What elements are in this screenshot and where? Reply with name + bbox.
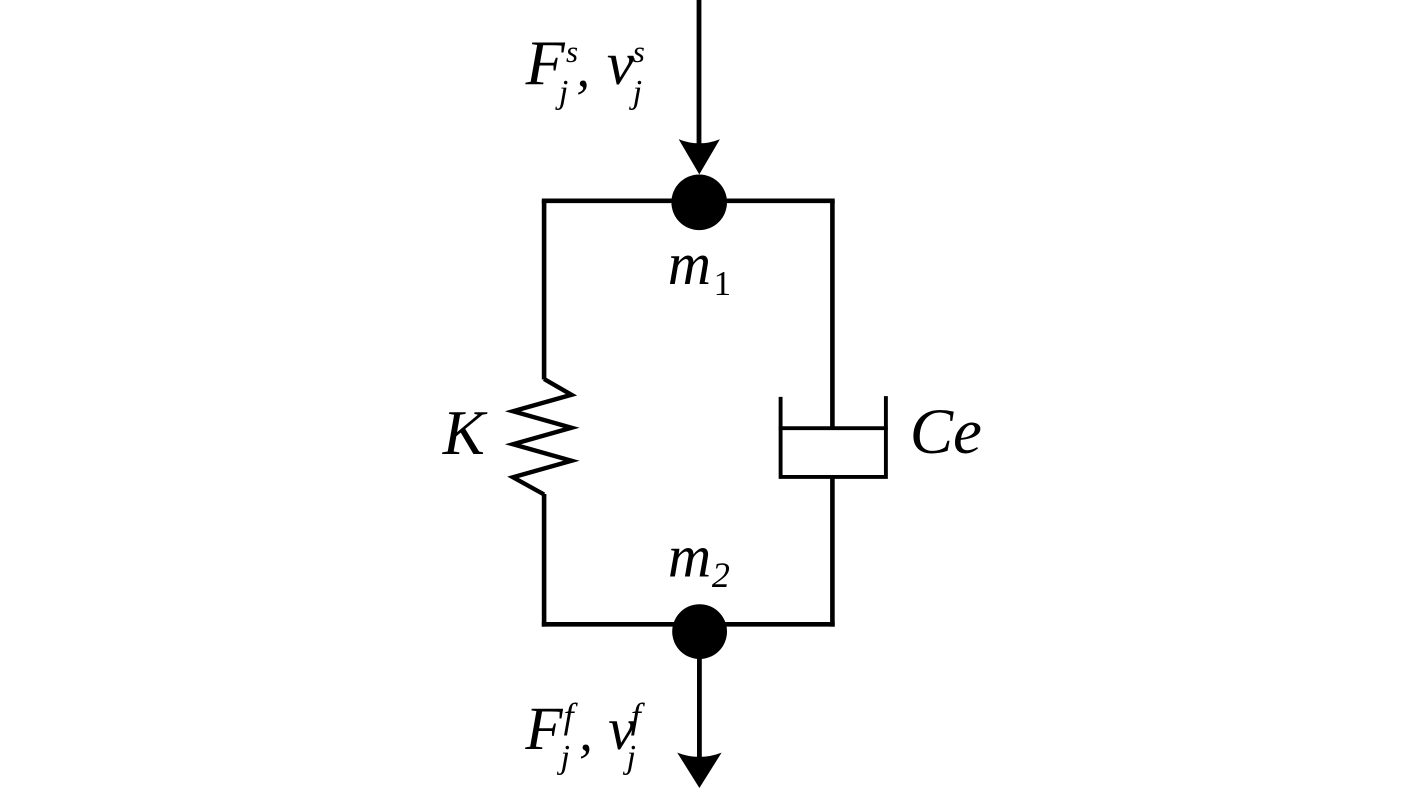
svg-text:F: F <box>524 696 563 763</box>
wire: bottom horizontal <box>542 622 835 627</box>
svg-text:s: s <box>633 34 645 69</box>
svg-text:2: 2 <box>712 555 730 595</box>
wire: input force arrow stem <box>697 0 702 146</box>
svg-text:m: m <box>668 231 711 297</box>
spring K <box>513 379 572 495</box>
node m1 (junction) <box>671 175 727 231</box>
damper Ce piston plate <box>779 426 888 430</box>
wire: left wall upper segment <box>542 201 547 380</box>
svg-text:,: , <box>576 37 590 98</box>
wire: output force arrow stem <box>697 657 702 760</box>
svg-text:m: m <box>668 524 711 590</box>
wire: left wall lower segment <box>542 494 547 627</box>
wire: right wall upper segment (damper piston rod) <box>830 201 835 428</box>
svg-text:Ce: Ce <box>910 396 982 468</box>
svg-text:1: 1 <box>714 264 732 303</box>
wire: right wall lower segment <box>830 477 835 627</box>
svg-text:K: K <box>442 398 488 468</box>
damper Ce cylinder (cup) <box>781 396 886 477</box>
node m2 (junction) <box>672 604 727 659</box>
svg-text:v: v <box>607 31 635 98</box>
wire: top horizontal <box>542 199 835 204</box>
arrowhead: input force arrow <box>679 139 720 174</box>
svg-text:,: , <box>579 701 593 762</box>
arrowhead: output force arrow <box>677 753 721 788</box>
